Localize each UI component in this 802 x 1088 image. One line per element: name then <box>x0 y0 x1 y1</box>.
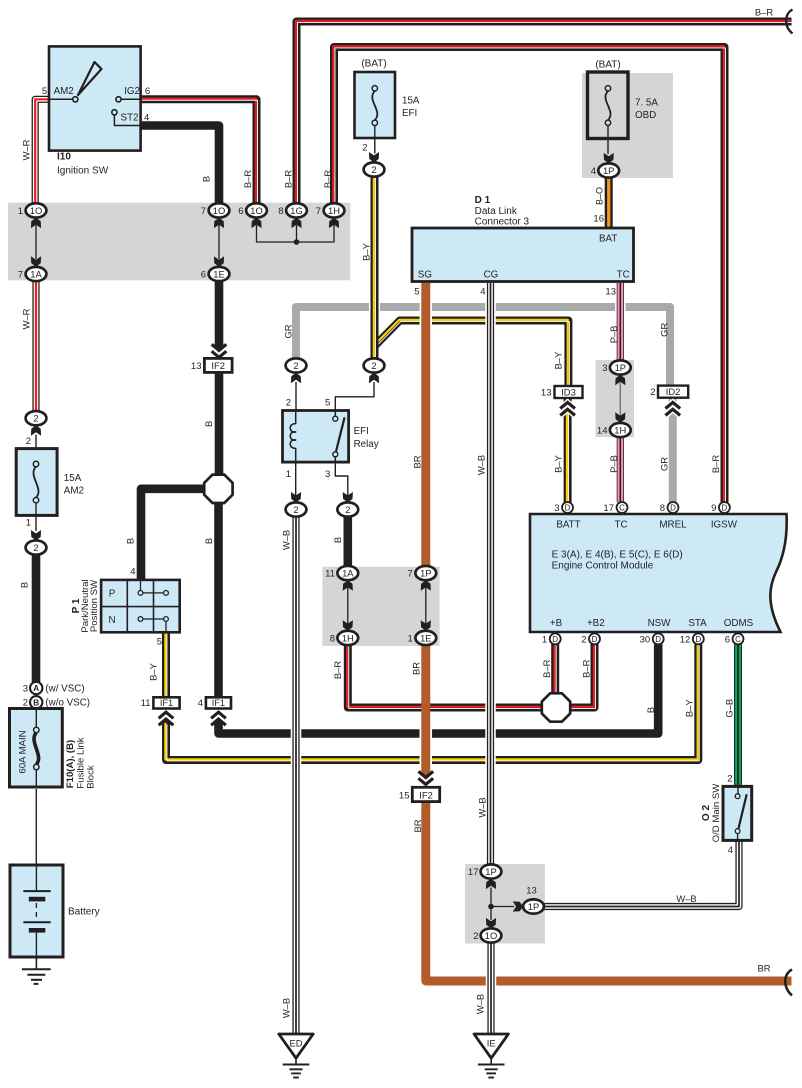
thin wire 1P17 to junction dot <box>490 888 492 907</box>
chevron arrows into ID2 <box>665 402 680 408</box>
svg-text:17: 17 <box>603 503 614 514</box>
svg-text:2: 2 <box>581 634 586 645</box>
connector 1O pin7 (B) <box>209 203 230 217</box>
svg-text:STA: STA <box>688 618 707 629</box>
wire GR: EFI relay pin2 to ID2 to ECM MREL <box>296 307 670 386</box>
svg-text:3: 3 <box>602 363 607 374</box>
ground symbol ED <box>295 1058 297 1064</box>
svg-text:2: 2 <box>727 774 732 785</box>
connector 1A pin11 <box>337 566 358 580</box>
thin wire relay pin1 to oval <box>295 462 297 496</box>
svg-text:ID2: ID2 <box>666 386 681 397</box>
arrow into 1O pin2 <box>486 918 496 928</box>
svg-text:4: 4 <box>130 567 135 578</box>
battery box <box>10 865 63 957</box>
svg-text:60A MAIN: 60A MAIN <box>17 730 28 773</box>
svg-text:1P: 1P <box>615 362 626 373</box>
svg-text:4: 4 <box>728 845 733 856</box>
arrow into oval 1P (OBD fuse) <box>604 153 614 163</box>
svg-text:BR: BR <box>411 455 422 468</box>
svg-text:13: 13 <box>605 287 616 298</box>
svg-text:13: 13 <box>541 387 552 398</box>
svg-text:6: 6 <box>145 86 150 97</box>
svg-text:1A: 1A <box>342 568 354 579</box>
connector 1A pin7 <box>26 267 47 281</box>
svg-text:B–R: B–R <box>282 170 293 188</box>
svg-text:11: 11 <box>325 569 335 580</box>
wire B: splice octagon A branch to Park/Neutral SW pin4 <box>141 489 205 580</box>
svg-text:D: D <box>722 503 728 512</box>
svg-text:16: 16 <box>593 214 604 225</box>
svg-text:I10: I10 <box>57 152 71 163</box>
svg-text:D: D <box>655 635 661 644</box>
connector 1E pin6 <box>209 267 230 281</box>
svg-text:3: 3 <box>325 469 330 480</box>
wire W-B: O/D Main SW pin4 to connector 1P <box>544 840 739 906</box>
svg-text:Ignition SW: Ignition SW <box>57 166 109 177</box>
svg-text:5: 5 <box>42 86 47 97</box>
svg-text:C: C <box>619 503 625 512</box>
connector 1G pin8 <box>286 203 307 217</box>
svg-text:BR: BR <box>757 963 770 974</box>
svg-text:B–Y: B–Y <box>684 699 695 717</box>
svg-text:W–R: W–R <box>20 308 31 329</box>
ignition contact AM2 <box>49 98 72 100</box>
svg-text:7: 7 <box>201 206 206 217</box>
connector 1P pin3 (TC line) <box>610 360 631 374</box>
svg-text:EFI: EFI <box>402 108 417 119</box>
thin wire AM2 fuse pin1 down <box>35 503 37 531</box>
double arrow 1O-1A <box>35 225 37 259</box>
connector oval 2 (EFI fuse) <box>364 162 385 176</box>
double arrow 1O-1E <box>218 225 220 259</box>
wire G-B: ECM ODMS to O/D Main SW pin2 <box>734 644 742 786</box>
wire B-R: ECM +B2 to splice octagon E <box>570 644 595 708</box>
connector 1O pin2 (O/D line) <box>481 928 502 942</box>
svg-text:3: 3 <box>23 683 28 694</box>
svg-text:B: B <box>332 537 343 543</box>
thin wire relay pin3 to oval <box>335 462 348 496</box>
arrow into oval 2 (EFI fuse) <box>369 152 379 162</box>
wire B-Y: EFI fuse to EFI relay pin5 oval <box>369 301 380 314</box>
svg-text:2: 2 <box>371 360 376 371</box>
svg-text:IE: IE <box>487 1038 496 1049</box>
ignition contact IG2 <box>122 98 141 100</box>
connector IF1 pin11 (B-Y) <box>153 697 179 708</box>
ground triangle ED <box>279 1034 313 1058</box>
svg-text:7: 7 <box>316 206 321 217</box>
ignition switch I10 box <box>49 46 141 150</box>
svg-text:15: 15 <box>399 790 410 801</box>
svg-text:B–Y: B–Y <box>147 662 158 680</box>
svg-text:ID3: ID3 <box>561 386 576 397</box>
svg-text:D: D <box>565 503 571 512</box>
svg-text:W–B: W–B <box>281 530 292 550</box>
svg-text:6: 6 <box>725 634 730 645</box>
wire B: IF2 to splice octagon A <box>215 372 224 475</box>
svg-text:IF1: IF1 <box>160 698 173 708</box>
connector 1H pin14 (TC line) <box>610 423 631 437</box>
connector oval 2 (B-Y into relay pin5) <box>364 358 385 372</box>
connector 1H pin8 (B-R) <box>337 631 358 645</box>
svg-text:14: 14 <box>597 425 608 436</box>
wire B: IF1 to ECM NSW <box>219 644 659 733</box>
svg-text:BR: BR <box>412 819 423 832</box>
svg-text:3: 3 <box>554 503 559 514</box>
connector circle B (w/o VSC) <box>30 696 42 708</box>
ECM top pin IGSW <box>719 502 730 513</box>
svg-text:B: B <box>645 707 656 713</box>
thin wire junction to 1P pin13 <box>491 906 514 908</box>
gray background connector box 1P/1H (TC line) <box>596 360 634 437</box>
svg-text:Position SW: Position SW <box>89 579 100 632</box>
thin wire oval to relay pin5 <box>335 382 374 411</box>
svg-text:15A: 15A <box>64 473 82 484</box>
wire B: EFI relay pin3 oval to connector 1A <box>343 516 352 566</box>
svg-text:W–B: W–B <box>280 998 291 1018</box>
arrows between 1P and 1E <box>425 587 427 624</box>
thin wire oval to relay pin2 <box>295 382 297 411</box>
svg-text:ED: ED <box>289 1038 302 1049</box>
wire B: splice octagon A down to IF1 <box>214 502 223 697</box>
wire B-R: connector 1H up across to ECM IGSW <box>334 47 725 502</box>
wire W-B: Data Link CG to connector 1P (O/D line) <box>485 301 496 314</box>
svg-text:8: 8 <box>330 633 335 644</box>
thin wire junction down to 1O <box>490 907 492 921</box>
svg-text:P–B: P–B <box>608 455 619 473</box>
svg-text:1O: 1O <box>485 930 498 941</box>
svg-text:Engine Control Module: Engine Control Module <box>552 561 654 572</box>
connector 1O pin1 (W-R) <box>26 203 47 217</box>
connector 1P pin7 (BR) <box>415 566 436 580</box>
wire B-R: connector 1H to splice octagon E <box>348 645 543 708</box>
svg-text:1O: 1O <box>250 205 263 216</box>
wire P-B: Data Link TC to connector 1P <box>615 301 626 314</box>
chevron arrows into ID3 <box>560 402 575 408</box>
ignition switch lever <box>78 62 102 95</box>
svg-text:6: 6 <box>238 206 243 217</box>
svg-text:TC: TC <box>614 520 627 531</box>
connector oval 2 (relay pin1 W-B) <box>286 502 307 516</box>
svg-text:GR: GR <box>658 323 669 337</box>
arrow into 1P pin17 <box>486 879 496 889</box>
svg-text:1P: 1P <box>420 568 431 579</box>
svg-text:1A: 1A <box>30 268 42 279</box>
svg-text:D: D <box>592 635 598 644</box>
connector ID2 pin2 <box>658 386 688 398</box>
svg-text:2: 2 <box>286 398 291 409</box>
wire BR: IF2 to right edge break <box>426 801 792 981</box>
svg-text:W–R: W–R <box>20 139 31 160</box>
connector ID3 pin13 <box>555 386 583 398</box>
svg-text:4: 4 <box>480 287 485 298</box>
svg-text:E 3(A), E 4(B), E 5(C), E 6(D): E 3(A), E 4(B), E 5(C), E 6(D) <box>552 549 683 560</box>
svg-text:2: 2 <box>33 413 38 424</box>
svg-text:11: 11 <box>141 698 151 709</box>
connector 1H pin7 <box>324 203 345 217</box>
chevron arrows into IF2 (BR wire) <box>421 772 430 778</box>
svg-text:17: 17 <box>468 867 479 878</box>
svg-text:1E: 1E <box>213 268 224 279</box>
svg-text:2: 2 <box>345 504 350 515</box>
ignition contact ST2 <box>114 115 141 125</box>
svg-text:B–R: B–R <box>322 170 333 188</box>
svg-text:1: 1 <box>542 634 547 645</box>
svg-text:+B: +B <box>550 618 563 629</box>
battery ground <box>35 957 37 969</box>
svg-text:(BAT): (BAT) <box>595 60 620 71</box>
svg-text:AM2: AM2 <box>54 86 74 97</box>
svg-text:Battery: Battery <box>68 907 100 918</box>
wire B-R: connector 1G up and to right edge break <box>297 22 792 204</box>
svg-text:B–Y: B–Y <box>552 454 563 472</box>
svg-text:W–B: W–B <box>475 455 486 475</box>
svg-text:B–R: B–R <box>541 659 552 677</box>
svg-text:8: 8 <box>660 503 665 514</box>
battery internal symbol <box>35 865 37 891</box>
wire B-Y: ID3 to ECM BATT pin3 <box>564 398 572 502</box>
svg-text:B: B <box>203 421 214 427</box>
svg-text:IF1: IF1 <box>212 698 225 708</box>
svg-text:ODMS: ODMS <box>724 618 754 629</box>
svg-text:1H: 1H <box>328 205 340 216</box>
svg-text:B: B <box>18 582 29 588</box>
svg-text:5: 5 <box>157 637 162 648</box>
gray background connector box 1P/1P/1O (O/D line) <box>465 864 545 944</box>
svg-text:B: B <box>125 538 136 544</box>
svg-text:2: 2 <box>362 143 367 154</box>
connector oval 2 (GR into relay pin2) <box>286 358 307 372</box>
arrow into B-Y oval <box>369 373 379 383</box>
svg-text:2: 2 <box>293 360 298 371</box>
svg-text:AM2: AM2 <box>64 486 84 497</box>
svg-text:G–B: G–B <box>724 699 735 718</box>
svg-text:7: 7 <box>408 569 413 580</box>
ground symbol IE <box>490 1058 492 1064</box>
connector IF2 pin15 <box>412 787 439 801</box>
svg-text:4: 4 <box>144 113 149 124</box>
wire B: AM2 fuse oval down to fusible link circle A <box>32 554 41 682</box>
svg-text:Relay: Relay <box>354 439 379 450</box>
svg-text:1O: 1O <box>213 205 226 216</box>
svg-text:TC: TC <box>617 270 630 281</box>
engine control module box <box>530 514 787 632</box>
break symbol BR wire right edge <box>785 970 792 996</box>
connector oval 2 (above AM2 fuse) <box>26 411 47 425</box>
svg-text:B–R: B–R <box>332 661 343 679</box>
wire B-Y: Park/Neutral SW pin5 to IF1 <box>162 632 170 697</box>
thin wire: fusible link block to battery <box>35 789 37 866</box>
svg-text:9: 9 <box>711 503 716 514</box>
wire BR: Data Link SG to IF2 (casings at crossings) <box>420 301 433 314</box>
svg-text:8: 8 <box>278 206 283 217</box>
svg-text:1H: 1H <box>614 424 626 435</box>
svg-text:B: B <box>201 176 212 182</box>
svg-text:2: 2 <box>26 436 31 447</box>
connector 1P pin13 (O/D line) <box>523 899 544 913</box>
svg-text:GR: GR <box>282 324 293 338</box>
svg-text:13: 13 <box>191 361 202 372</box>
svg-text:B: B <box>203 538 214 544</box>
svg-text:1O: 1O <box>30 205 43 216</box>
svg-text:BR: BR <box>410 662 421 675</box>
svg-text:SG: SG <box>418 270 432 281</box>
relay switch contacts <box>334 411 336 417</box>
svg-text:B–O: B–O <box>594 187 604 205</box>
chevron arrows into IF1 (B wire) <box>211 712 226 718</box>
OBD fuse gray background <box>582 73 673 178</box>
park/neutral position switch P1 box <box>101 580 180 632</box>
arrow into oval 2 (W-R) <box>31 425 41 435</box>
arrows between 1P and 1H <box>619 382 621 417</box>
svg-text:1: 1 <box>286 469 291 480</box>
svg-text:1: 1 <box>408 633 413 644</box>
ECM top pin TC <box>617 502 628 513</box>
wire W-B: EFI relay pin1 to ED ground <box>291 727 302 740</box>
wire B-R: ECM +B to splice octagon E <box>551 644 559 695</box>
wire B: ignition SW ST2 pin4 to connector 1O <box>141 126 219 204</box>
chevron arrows into IF2 <box>214 344 223 350</box>
wire B-R: ignition SW IG2 pin6 to connector 1O <box>141 99 257 203</box>
connector oval 1P pin4 (OBD) <box>598 163 619 177</box>
junction dot on bracket <box>294 239 300 245</box>
svg-text:CG: CG <box>484 270 499 281</box>
svg-text:1E: 1E <box>420 632 431 643</box>
EFI relay U box <box>283 411 349 463</box>
svg-text:W–B: W–B <box>474 994 485 1014</box>
svg-text:B–R: B–R <box>755 7 773 18</box>
svg-text:OBD: OBD <box>635 110 656 121</box>
wire W-B: connector 1O to IE ground <box>486 975 497 988</box>
svg-text:P–B: P–B <box>608 326 619 344</box>
thin wire oval to AM2 fuse <box>35 435 37 462</box>
svg-text:2: 2 <box>371 164 376 175</box>
svg-text:2: 2 <box>473 931 478 942</box>
ECM top pin MREL <box>668 502 679 513</box>
svg-text:2: 2 <box>293 504 298 515</box>
arrow into oval 2 (below AM2 fuse) <box>31 530 41 540</box>
svg-text:30: 30 <box>640 634 651 645</box>
svg-text:6: 6 <box>201 269 206 280</box>
svg-text:BATT: BATT <box>556 520 580 531</box>
svg-text:B–R: B–R <box>580 659 591 677</box>
svg-text:1: 1 <box>26 517 31 528</box>
svg-text:B–R: B–R <box>710 455 721 473</box>
connector IF1 pin4 (B) <box>206 697 231 708</box>
svg-text:4: 4 <box>591 166 596 177</box>
chevron arrows into IF1 (B-Y wire) <box>159 712 174 718</box>
thin wire OBD fuse to connector 1P <box>607 126 609 155</box>
svg-text:5: 5 <box>325 398 330 409</box>
svg-text:Connector 3: Connector 3 <box>475 217 530 228</box>
svg-text:ST2: ST2 <box>121 113 139 124</box>
bracket wire joining 1O 1G 1H <box>257 225 335 242</box>
wire P-B: connector 1H to ECM TC <box>617 437 624 502</box>
connector 1O pin6 (B-R) <box>246 203 267 217</box>
connector 1E pin1 (BR) <box>415 631 436 645</box>
svg-text:MREL: MREL <box>659 520 687 531</box>
break symbol B-R wire right edge <box>786 10 792 34</box>
svg-text:D 1: D 1 <box>475 195 491 206</box>
wire B-Y: ECM BATT via ID3 joining EFI fuse wire <box>375 321 569 387</box>
wire BR: connector 1E to IF2 lower <box>420 727 433 740</box>
svg-text:2: 2 <box>650 387 655 398</box>
fuse 15A AM2 <box>16 449 57 516</box>
svg-text:B–Y: B–Y <box>552 351 563 369</box>
connector 1P pin17 (O/D line) <box>481 864 502 878</box>
fusible link block 60A MAIN <box>10 709 63 788</box>
svg-text:12: 12 <box>680 634 691 645</box>
svg-text:GR: GR <box>658 457 669 471</box>
junction dot O/D line <box>488 904 494 910</box>
arrow into GR oval <box>291 373 301 383</box>
svg-text:EFI: EFI <box>354 426 369 437</box>
wire B-O: OBD fuse to Data Link BAT pin16 <box>605 178 613 229</box>
svg-text:7. 5A: 7. 5A <box>635 98 658 109</box>
connector oval 2 (relay pin3 B) <box>337 502 358 516</box>
wire W-R: connector 1A to AM2 fuse oval <box>32 281 39 412</box>
svg-text:1H: 1H <box>342 632 354 643</box>
data link connector D1 box <box>412 228 634 282</box>
svg-text:1G: 1G <box>290 205 303 216</box>
svg-text:(w/ VSC): (w/ VSC) <box>45 683 84 694</box>
svg-text:4: 4 <box>198 698 203 709</box>
ground triangle IE <box>474 1034 508 1058</box>
svg-text:B: B <box>33 699 39 708</box>
svg-text:B–R: B–R <box>242 170 253 188</box>
svg-text:IG2: IG2 <box>124 86 140 97</box>
arrow into 1P pin13 <box>513 901 523 911</box>
connector circle A (w/ VSC) <box>30 682 42 694</box>
svg-text:A: A <box>33 684 39 693</box>
svg-text:W–B: W–B <box>476 797 487 817</box>
svg-text:+B2: +B2 <box>587 618 605 629</box>
wire W-R: ignition SW AM2 pin5 to connector 1O <box>35 99 49 203</box>
svg-text:Data Link: Data Link <box>475 206 518 217</box>
svg-text:BAT: BAT <box>599 234 617 245</box>
connector oval 2 (below AM2 fuse) <box>26 540 47 554</box>
wire B-Y: IF1 to ECM STA <box>166 644 698 760</box>
svg-text:D: D <box>695 635 701 644</box>
svg-text:D: D <box>670 503 676 512</box>
svg-text:D: D <box>552 635 558 644</box>
svg-text:NSW: NSW <box>648 618 672 629</box>
svg-text:2: 2 <box>33 542 38 553</box>
svg-text:P: P <box>109 589 116 600</box>
svg-text:1: 1 <box>18 206 23 217</box>
svg-text:Block: Block <box>85 765 96 789</box>
connector band background (instrument panel junction) <box>8 203 350 281</box>
svg-text:1P: 1P <box>603 165 614 176</box>
gray background connector box 1A/1P/1H/1E <box>322 567 439 646</box>
connector IF2 pin13 <box>204 358 232 372</box>
svg-text:O/D Main SW: O/D Main SW <box>711 783 722 843</box>
svg-text:IF2: IF2 <box>419 789 433 800</box>
svg-text:W–B: W–B <box>676 893 696 904</box>
thin wire EFI fuse pin2 to connector <box>374 126 376 154</box>
svg-text:C: C <box>735 635 741 644</box>
wire B: connector 1E down to IF2 <box>215 281 224 346</box>
ECM top pin BATT <box>562 502 573 513</box>
svg-text:(BAT): (BAT) <box>361 59 386 70</box>
svg-text:IGSW: IGSW <box>711 520 738 531</box>
splice octagon E (B-R wires) <box>542 693 570 721</box>
svg-text:15A: 15A <box>402 96 420 107</box>
splice octagon A (B wire) <box>204 475 232 503</box>
svg-text:5: 5 <box>414 287 419 298</box>
svg-text:1P: 1P <box>485 866 496 877</box>
arrows between 1A and 1H <box>347 587 349 624</box>
